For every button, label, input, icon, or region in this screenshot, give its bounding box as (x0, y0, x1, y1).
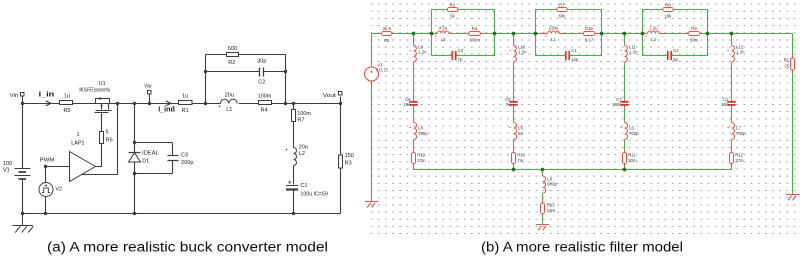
ground symbol (13, 214, 34, 233)
resistor R1 (load) (792, 56, 794, 73)
svg-text:10n: 10n (722, 102, 730, 107)
svg-text:200p: 200p (181, 160, 194, 166)
resistor R7 (292, 110, 296, 122)
wire R7 to L2 (293, 122, 295, 148)
svg-text:L7: L7 (736, 125, 741, 130)
capacitor C6 (branch1) (413, 99, 415, 107)
resistor R9 (section3 damping) (686, 33, 703, 35)
node section2 box right (600, 32, 604, 36)
resistor R3 (339, 155, 343, 168)
resistor R16 (section2 damping) (581, 33, 598, 35)
node section3 box left (641, 32, 645, 36)
wire branch3 vertical (624, 34, 626, 151)
svg-text:7p: 7p (458, 57, 463, 62)
wire D1 top to C3 (135, 142, 173, 144)
inductor L8 (542, 175, 544, 176)
wire branch4 vertical (731, 34, 733, 151)
op-amp LAP1 triangle (70, 152, 96, 182)
svg-text:V2: V2 (55, 187, 62, 193)
wire V3 bottom lead (371, 85, 373, 202)
capacitor C8 (branch2) (513, 99, 515, 107)
svg-text:30p: 30p (257, 58, 266, 64)
wire C3 lower lead (172, 161, 174, 174)
wire center branch upper (542, 170, 544, 175)
diode D1 triangle (129, 153, 141, 162)
source V3 circle (365, 67, 379, 81)
node D1 bottom junction (133, 172, 136, 175)
svg-text:R7: R7 (559, 3, 565, 8)
wire Vout stub (340, 97, 342, 104)
wire R7 branch top (293, 104, 295, 110)
svg-text:R5: R5 (63, 108, 70, 114)
svg-text:Vsw: Vsw (144, 84, 151, 90)
wire section3 box upper loop (643, 10, 708, 34)
inductor L2 (section3) (643, 33, 648, 35)
node section1 box left (430, 32, 434, 36)
wire V2 bottom stub (45, 197, 47, 214)
svg-text:L8: L8 (547, 176, 552, 181)
wire C2 row right (264, 71, 286, 73)
wire R6 to op-amp output (96, 144, 102, 167)
wire gate to R6 (101, 113, 103, 131)
wire L2 to C1 (293, 166, 295, 185)
svg-text:100: 100 (3, 161, 12, 167)
node PWM (44, 165, 47, 168)
resistor R5 (input) (379, 33, 395, 35)
svg-text:R11: R11 (628, 152, 636, 157)
svg-text:100m: 100m (297, 111, 311, 117)
wire bottom rail b (414, 169, 732, 171)
svg-text:100u IC=59: 100u IC=59 (300, 191, 328, 197)
svg-text:L1: L1 (551, 37, 556, 42)
svg-text:6k: 6k (450, 14, 455, 19)
node output junction (292, 102, 295, 105)
transistor U1 loop arrow (100, 97, 103, 99)
wire Vsw stub (149, 94, 151, 104)
svg-text:600: 600 (228, 46, 237, 52)
ground V3 (365, 202, 378, 208)
svg-text:R1: R1 (182, 108, 189, 114)
svg-text:5: 5 (106, 129, 109, 135)
diode D1 cathode bar (129, 152, 141, 154)
svg-text:7u: 7u (506, 102, 511, 107)
svg-text:D1: D1 (142, 159, 149, 165)
svg-text:C2: C2 (258, 79, 265, 85)
source V2 circle (39, 183, 53, 197)
svg-text:9.17: 9.17 (585, 38, 594, 43)
svg-text:C1: C1 (300, 183, 307, 189)
wire R13 to ground (542, 216, 544, 225)
wire C1 to rail (293, 190, 295, 214)
svg-text:(b) A more realistic filter mo: (b) A more realistic filter model (481, 240, 683, 256)
capacitor C1 bottom plate (286, 188, 298, 190)
inductor L11 (branch3 upper) (624, 44, 626, 45)
source V2 pulse glyph (42, 185, 50, 193)
node section2 box left (534, 32, 538, 36)
node C1 rail junction (292, 212, 295, 215)
svg-text:7m: 7m (517, 158, 523, 163)
capacitor C2 (branch4) (731, 99, 733, 107)
svg-text:100n: 100n (612, 102, 622, 107)
node switch junction (133, 102, 136, 105)
resistor R2 (227, 53, 239, 57)
inductor L7 phase dot (727, 127, 728, 128)
svg-text:100m: 100m (258, 93, 272, 99)
svg-text:30.6: 30.6 (383, 26, 392, 31)
resistor R11 (branch3) (624, 150, 626, 169)
wire PWM to op-amp input (46, 166, 70, 168)
resistor R10 (branch2) (513, 150, 515, 169)
battery V1 long plates (15, 169, 31, 176)
node center branch junction (541, 168, 545, 172)
capacitor C1 plus (288, 181, 291, 184)
wire Vin to V1 (22, 104, 24, 169)
node section1 box right (493, 32, 497, 36)
node V2 rail junction (44, 212, 47, 215)
node branch2 top junction (512, 32, 516, 36)
svg-text:L5: L5 (518, 125, 523, 130)
svg-text:R13: R13 (547, 203, 555, 208)
node D1 rail junction (133, 212, 136, 215)
node V1 rail junction (21, 212, 24, 215)
inductor L4 phase dot (409, 127, 410, 128)
resistor R7 (section2 top) (557, 8, 568, 12)
resistor R13 (542, 201, 544, 216)
wire Vin stub (22, 97, 24, 104)
grid backdrop (decorative) (371, 4, 798, 233)
node Vin junction (21, 102, 24, 105)
transistor U1 body loop (96, 99, 110, 104)
inductor L6 phase dot (620, 127, 621, 128)
svg-text:600p: 600p (547, 182, 557, 187)
inductor L5 (branch2 lower) (513, 121, 515, 122)
inductor L1 phase dot (546, 35, 547, 36)
resistor R5 (60, 101, 73, 105)
svg-text:PWM: PWM (40, 157, 55, 163)
svg-text:R7: R7 (297, 118, 304, 124)
svg-text:R8: R8 (665, 3, 671, 8)
svg-text:R2: R2 (228, 60, 235, 66)
node branch2 bottom junction (512, 168, 516, 172)
inductor L10 phase dot (509, 50, 510, 51)
node box right mid (284, 70, 287, 73)
svg-text:Vin: Vin (10, 93, 18, 99)
inductor L2 phase dot (286, 149, 288, 151)
svg-text:700p: 700p (736, 131, 746, 136)
node branch3 bottom junction (623, 168, 627, 172)
svg-text:R4: R4 (261, 108, 268, 114)
svg-text:R5: R5 (384, 38, 390, 43)
port Vout (339, 92, 343, 96)
wire output drop (792, 34, 794, 195)
svg-text:20u: 20u (225, 93, 234, 99)
wire feedback box right edge (285, 55, 287, 104)
svg-text:L3: L3 (441, 37, 446, 42)
wire C3 return (135, 173, 173, 175)
wire main top rail right (239, 103, 341, 105)
svg-text:R10: R10 (517, 152, 525, 157)
source V3 plus mark (371, 71, 373, 73)
resistor R12 (branch4) (731, 150, 733, 169)
node box left lower (204, 102, 207, 105)
wire main top rail left (23, 103, 221, 105)
svg-text:LAP1: LAP1 (71, 140, 84, 146)
wire section3 box lower loop (643, 34, 708, 56)
svg-text:IDEAL: IDEAL (142, 151, 159, 157)
node branch1 top junction (412, 32, 416, 36)
svg-text:L2: L2 (299, 151, 305, 157)
resistor R8 (section3 top) (663, 8, 674, 12)
node MOSFET source (116, 102, 119, 105)
resistor R1 (179, 101, 193, 105)
node D1 top junction (133, 141, 136, 144)
node branch3 top junction (623, 32, 627, 36)
transistor U1 channel legs (102, 104, 109, 110)
inductor L11 phase dot (620, 50, 621, 51)
svg-text:100m: 100m (469, 38, 480, 43)
svg-text:1u: 1u (182, 93, 188, 99)
current arrow I_ind (166, 101, 171, 106)
inductor L2 (294, 148, 297, 166)
resistor R4 (section1 damping) (466, 33, 483, 35)
inductor L12 phase dot (727, 50, 728, 51)
capacitor C7 (branch3) (624, 99, 626, 107)
resistor R2 (section1 top) (447, 8, 458, 12)
svg-text:50m: 50m (628, 158, 637, 163)
svg-text:19k: 19k (665, 14, 673, 19)
svg-text:R4: R4 (472, 26, 478, 31)
svg-text:700p: 700p (629, 131, 639, 136)
inductor L1 (section2) (536, 33, 548, 35)
wire section1 box upper loop (432, 10, 495, 34)
wire R3 to rail (340, 168, 342, 214)
svg-text:5p: 5p (673, 57, 678, 62)
ground center (536, 225, 549, 231)
wire C2 row left (206, 71, 260, 73)
svg-text:(a) A more realistic buck conv: (a) A more realistic buck converter mode… (47, 240, 328, 256)
capacitor C3 (section1) (452, 51, 455, 60)
svg-text:U1: U1 (99, 81, 106, 87)
svg-text:27m: 27m (417, 158, 426, 163)
svg-text:1: 1 (76, 132, 79, 138)
inductor L7 (branch4 lower) (731, 121, 733, 122)
node box left mid (204, 70, 207, 73)
transistor U1 arrow mark (101, 104, 103, 107)
wire branch2 vertical (513, 34, 515, 151)
svg-text:20n: 20n (299, 144, 308, 150)
inductor L1 (220, 99, 237, 103)
resistor R4 (259, 101, 272, 105)
node branch4 top junction (730, 32, 734, 36)
wire op-amp feedback (81, 174, 118, 176)
inductor L3 (section1) (432, 33, 437, 35)
svg-text:L6: L6 (629, 125, 634, 130)
node box right lower (284, 102, 287, 105)
svg-text:27m: 27m (735, 158, 744, 163)
svg-text:1.3n: 1.3n (736, 50, 745, 55)
wire branch1 vertical (413, 34, 415, 151)
wire bottom rail (23, 213, 341, 215)
svg-text:230u: 230u (549, 25, 559, 30)
svg-text:MOSFETparametric: MOSFETparametric (79, 87, 110, 93)
svg-text:R6: R6 (106, 137, 113, 143)
wire top rail b (372, 33, 793, 35)
svg-text:C4: C4 (673, 48, 679, 53)
svg-text:Vout: Vout (323, 93, 337, 99)
resistor R6 (100, 132, 104, 144)
svg-text:I_ind: I_ind (158, 105, 175, 114)
inductor L3 phase dot (435, 35, 436, 36)
svg-text:700p: 700p (418, 131, 428, 136)
svg-text:50m: 50m (690, 38, 699, 43)
capacitor C3 top plate (168, 155, 179, 157)
inductor L6 (branch3 lower) (624, 121, 626, 122)
inductor L5 phase dot (509, 127, 510, 128)
wire section2 box upper loop (536, 10, 602, 34)
capacitor C1 top plate (286, 185, 298, 187)
inductor L9 phase dot (409, 50, 410, 51)
svg-text:R12: R12 (735, 152, 743, 157)
wire switch node to D1 (134, 104, 136, 153)
capacitor C3 bottom plate (168, 160, 179, 162)
port Vsw (148, 91, 152, 95)
node section3 box right (706, 32, 710, 36)
svg-text:L1: L1 (226, 107, 232, 113)
wire V1 to rail (22, 179, 24, 214)
inductor L9 (branch1 upper) (413, 44, 415, 45)
wire C3 upper lead (172, 143, 174, 156)
svg-text:L2: L2 (651, 37, 656, 42)
svg-text:R19: R19 (417, 152, 425, 157)
wire V2 top stub (45, 167, 47, 183)
wire Vout to R3 (340, 104, 342, 156)
svg-text:5n: 5n (518, 131, 523, 136)
wire R2 top edge (206, 54, 286, 56)
transistor U1 gate bar (95, 112, 109, 114)
svg-text:4.5u: 4.5u (439, 25, 448, 30)
battery V1 short plates (19, 172, 27, 179)
svg-text:R2: R2 (450, 3, 456, 8)
svg-text:1.3n: 1.3n (629, 50, 638, 55)
svg-text:R1: R1 (784, 57, 790, 62)
svg-text:L4: L4 (418, 125, 423, 130)
capacitor C1 (section2) (566, 51, 569, 60)
inductor L10 (branch2 upper) (513, 44, 515, 45)
svg-text:10n: 10n (404, 102, 412, 107)
wire D1 to rail (134, 162, 136, 214)
svg-text:R3: R3 (345, 161, 352, 167)
wire V3 top lead (371, 34, 373, 62)
capacitor C4 (section3) (668, 51, 671, 60)
port Vin (21, 93, 25, 97)
svg-text:1u: 1u (64, 94, 70, 100)
svg-text:I_in: I_in (39, 90, 55, 99)
wire section1 box lower loop (432, 34, 495, 56)
svg-text:150: 150 (345, 153, 354, 159)
node Vout junction (339, 102, 342, 105)
svg-text:10m: 10m (547, 208, 556, 213)
wire section2 box lower loop (536, 34, 602, 56)
svg-text:C1: C1 (571, 48, 577, 53)
svg-text:60k: 60k (559, 14, 567, 19)
svg-text:C3: C3 (458, 48, 464, 53)
wire feedback box left edge (205, 55, 207, 104)
capacitor C2 (260, 68, 264, 77)
transistor U1 channel bar (96, 110, 112, 112)
svg-text:25: 25 (784, 63, 789, 68)
svg-text:1.2u: 1.2u (649, 25, 658, 30)
node Vsw junction (148, 102, 151, 105)
svg-text:C3: C3 (181, 152, 188, 158)
resistor R19 (branch1) (413, 150, 415, 169)
wire L8 to R13 (542, 194, 544, 201)
wire MOSFET source drop (117, 104, 119, 175)
current arrow I_in (46, 101, 51, 106)
svg-text:1.3n: 1.3n (418, 50, 427, 55)
svg-text:R9: R9 (691, 26, 697, 31)
svg-text:0 AC 1.0: 0 AC 1.0 (376, 67, 388, 72)
svg-text:V1: V1 (3, 168, 10, 174)
source V3 leads (371, 62, 373, 85)
inductor L12 (branch4 upper) (731, 44, 733, 45)
inductor L1 phase dot (219, 105, 221, 107)
inductor L4 (branch1 lower) (413, 121, 415, 122)
inductor L2 phase dot (646, 35, 647, 36)
ground right (786, 195, 799, 201)
svg-text:1.3n: 1.3n (518, 50, 527, 55)
svg-text:10p: 10p (571, 57, 579, 62)
svg-text:R16: R16 (585, 26, 593, 31)
